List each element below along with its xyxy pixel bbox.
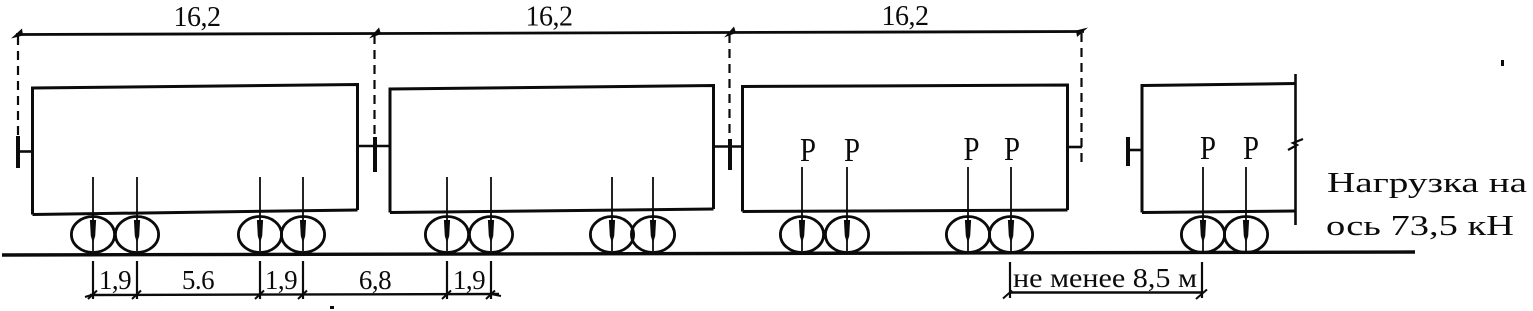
- axle line car2 wheel4: [652, 177, 654, 251]
- tick hook x=260: [255, 291, 264, 300]
- axle load arrowhead car2 wheel3: [609, 220, 615, 243]
- dimension tick x=1010: [1009, 262, 1011, 298]
- dimension arrow junction at x=375: [369, 28, 381, 39]
- coupler bar between car2 and car3: [728, 139, 732, 170]
- dimension tick x=1202: [1201, 262, 1203, 298]
- axle load arrowhead car1 wheel2: [134, 220, 140, 243]
- axle load arrowhead car1 wheel1: [90, 220, 96, 243]
- svg-text:16,2: 16,2: [526, 2, 573, 33]
- svg-text:Р: Р: [1200, 130, 1216, 167]
- dimension tick x=137: [136, 261, 138, 299]
- axle line car3 wheel3: [967, 167, 969, 251]
- coupler tick right of car3: [1067, 146, 1082, 149]
- coupler bar left end: [16, 136, 20, 168]
- extension line x=730 dashed: [728, 34, 730, 139]
- svg-text:Р: Р: [800, 132, 816, 169]
- wheel car3-1: [780, 217, 823, 253]
- axle load arrowhead car2 wheel4: [650, 220, 656, 243]
- wheel car1-3: [238, 217, 281, 253]
- dimension arrow left end: [11, 29, 23, 39]
- axle load arrowhead car4 wheel1: [1200, 220, 1206, 243]
- axle line car1 wheel1: [92, 177, 94, 251]
- axle line car2 wheel3: [611, 177, 613, 251]
- car 4 break mark: [1288, 139, 1303, 150]
- svg-text:Р: Р: [964, 131, 980, 168]
- svg-text:1,9: 1,9: [99, 265, 131, 295]
- wheel car3-3: [946, 217, 989, 253]
- axle load arrowhead car3 wheel2: [844, 220, 850, 243]
- svg-text:16,2: 16,2: [174, 2, 221, 33]
- axle line car1 wheel4: [302, 177, 304, 251]
- wheel car2-4: [631, 217, 674, 253]
- wheel car1-4: [281, 217, 324, 253]
- svg-text:5.6: 5.6: [182, 265, 214, 295]
- axle load arrowhead car2 wheel1: [444, 220, 450, 243]
- coupler bar left of car4: [1126, 137, 1130, 166]
- coupler tick left of car4: [1128, 149, 1143, 152]
- dimension tick x=447: [446, 261, 448, 299]
- wheel car2-2: [469, 217, 512, 253]
- axle line car1 wheel3: [259, 177, 261, 251]
- stray speck top right: [1501, 60, 1504, 66]
- wheel car2-3: [590, 217, 633, 253]
- axle line car3 wheel2: [846, 167, 848, 251]
- svg-text:Р: Р: [844, 132, 860, 169]
- extension line x=1082 dashed: [1080, 33, 1082, 165]
- axle line car4 wheel2: [1245, 167, 1247, 251]
- dimension tick x=491: [490, 261, 492, 299]
- car 1 body: [33, 85, 358, 215]
- axle line car3 wheel4: [1010, 167, 1012, 251]
- axle load arrowhead car4 wheel2: [1243, 220, 1249, 243]
- stray speck bottom: [330, 306, 334, 309]
- svg-text:1,9: 1,9: [453, 265, 485, 295]
- axle line car2 wheel2: [490, 177, 492, 251]
- axle line car2 wheel1: [446, 177, 448, 251]
- axle load arrowhead car3 wheel1: [799, 220, 805, 243]
- coupler tick between car1 and car2: [357, 145, 391, 148]
- axle load arrowhead car3 wheel3: [965, 220, 971, 243]
- svg-text:Нагрузка на: Нагрузка на: [1327, 167, 1527, 199]
- ground line: [2, 252, 1415, 255]
- dimension tick x=93: [92, 261, 94, 299]
- coupler bar between car1 and car2: [373, 137, 377, 172]
- bottom dimension chain line: [90, 294, 499, 295]
- minimum spacing dimension line: [1010, 291, 1202, 293]
- wheel car3-2: [825, 217, 868, 253]
- axle line car4 wheel1: [1202, 167, 1204, 251]
- axle load arrowhead car2 wheel2: [488, 220, 494, 243]
- wheel car1-1: [71, 217, 114, 253]
- svg-text:16,2: 16,2: [882, 1, 929, 32]
- wheel car3-4: [989, 217, 1032, 253]
- wheel car4-1: [1181, 217, 1224, 253]
- tick hook x=447: [442, 291, 451, 300]
- car 3 body: [743, 85, 1068, 212]
- extension line x=18 dashed: [17, 36, 19, 137]
- car 4 body (cut at right): [1142, 84, 1296, 213]
- wheel car4-2: [1224, 217, 1267, 253]
- wheel car2-1: [425, 217, 468, 253]
- dimension tick x=303: [302, 261, 304, 299]
- dimension arrow right end: [1076, 28, 1088, 38]
- axle line car1 wheel2: [136, 177, 138, 251]
- chain tail right: [491, 294, 501, 296]
- top dimension line spanning three 16,2 bays: [16, 32, 1084, 35]
- car 2 body: [390, 86, 714, 213]
- dimension arrow junction at x=730: [724, 27, 736, 38]
- svg-text:6,8: 6,8: [359, 265, 391, 295]
- chain tail left: [85, 295, 93, 298]
- svg-text:ось 73,5 кН: ось 73,5 кН: [1326, 210, 1514, 242]
- min dim hook right: [1196, 290, 1207, 300]
- tick hook x=137: [132, 291, 141, 300]
- wheel car1-2: [115, 217, 158, 253]
- svg-text:Р: Р: [1004, 131, 1020, 168]
- min dim hook left: [1003, 291, 1012, 299]
- axle load arrowhead car1 wheel3: [257, 220, 263, 243]
- axle line car3 wheel1: [801, 167, 803, 251]
- axle load arrowhead car3 wheel4: [1008, 220, 1014, 243]
- car 4 right cut line: [1294, 74, 1297, 225]
- svg-text:Р: Р: [1243, 130, 1259, 167]
- extension line x=375 dashed: [373, 35, 375, 138]
- axle load arrowhead car1 wheel4: [300, 220, 306, 243]
- coupler tick left end: [18, 150, 33, 153]
- tick hook x=303: [298, 291, 307, 300]
- dimension tick x=260: [259, 261, 261, 299]
- svg-text:не менее 8,5 м: не менее 8,5 м: [1013, 263, 1197, 293]
- svg-text:1,9: 1,9: [265, 265, 297, 295]
- tick hook x=491: [486, 291, 495, 300]
- coupler tick between car2 and car3: [713, 145, 743, 148]
- tick hook x=93: [88, 291, 97, 300]
